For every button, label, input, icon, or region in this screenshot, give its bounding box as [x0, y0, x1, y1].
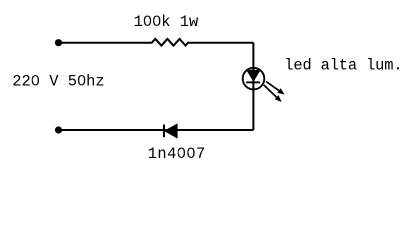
svg-text:100k 1w: 100k 1w [134, 13, 199, 31]
svg-text:220 V 50hz: 220 V 50hz [12, 72, 104, 90]
svg-text:1n4007: 1n4007 [148, 145, 206, 163]
svg-text:led alta lum.: led alta lum. [284, 57, 402, 75]
